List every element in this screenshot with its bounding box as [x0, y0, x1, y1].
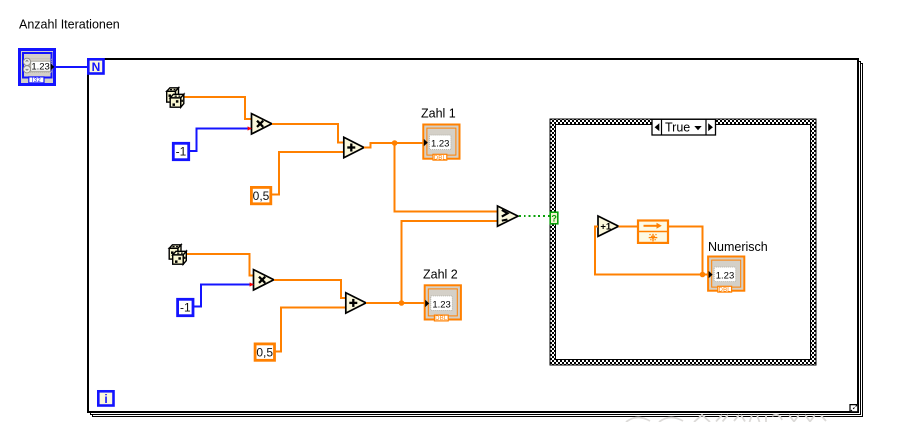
constant -1 (upper): [173, 143, 188, 159]
wire dice2 to multiply2: [187, 254, 254, 275]
multiply node lower: [254, 270, 274, 290]
svg-text:Zahl 1: Zahl 1: [421, 107, 456, 121]
junction node upper: [392, 140, 398, 146]
multiply node upper: [252, 114, 272, 134]
constant 0,5 (lower): [255, 344, 274, 360]
svg-text:I32: I32: [32, 78, 42, 84]
svg-text:1.23: 1.23: [31, 62, 50, 73]
numeric control (Anzahl Iterationen, I32): [20, 50, 55, 85]
junction node case: [700, 272, 706, 278]
svg-text:True: True: [665, 121, 690, 135]
constant 0,5 (upper): [251, 187, 270, 203]
svg-text:N: N: [92, 60, 101, 74]
wire 0,5 to add2: [276, 308, 346, 352]
wire add2 to junction2 and Zahl2: [366, 302, 424, 304]
svg-text:0,5: 0,5: [256, 345, 273, 359]
case selector label True: [652, 119, 716, 135]
coercion dot mul2: [250, 282, 254, 286]
wire junction1 down to comparison: [395, 143, 498, 211]
i terminal: [98, 391, 113, 406]
selector terminal ?: [550, 212, 558, 224]
feedback node: [638, 221, 668, 243]
dice U2 (random number, lower): [169, 245, 186, 264]
wire multiply2 to add2: [274, 280, 346, 298]
resize grip: [850, 405, 857, 412]
comparison node greater-or-equal: [498, 206, 519, 226]
svg-text:-1: -1: [176, 145, 187, 159]
coercion dot mul1: [248, 126, 252, 130]
boolean wire comparison to case selector: [519, 215, 550, 217]
constant -1 (lower): [178, 299, 193, 315]
indicator Zahl 2: [425, 285, 461, 322]
N terminal: [88, 59, 103, 74]
wire feedback loop back to +1: [595, 226, 703, 274]
wire 0,5 to add1: [272, 152, 344, 194]
indicator Numerisch: [708, 257, 744, 294]
svg-text:+1: +1: [600, 222, 612, 233]
junction node lower: [399, 300, 405, 306]
for loop N (stacked frame echoes): [88, 59, 863, 417]
wire junction2 up to comparison: [402, 221, 498, 303]
watermark fragments bottom: [626, 415, 826, 422]
wire dice1 to multiply1: [185, 97, 252, 119]
add node upper: [344, 137, 364, 157]
wire feedback out to junction and Numerisch: [668, 226, 708, 274]
svg-text:?: ?: [551, 214, 557, 224]
case structure border: [550, 119, 816, 365]
dice U1 (random number, upper): [167, 88, 184, 107]
add node lower: [346, 293, 366, 313]
svg-text:Anzahl Iterationen: Anzahl Iterationen: [19, 18, 120, 32]
wire multiply1 to add1: [272, 124, 344, 143]
svg-text:-1: -1: [180, 301, 191, 315]
wire control to N: [54, 66, 88, 68]
svg-text:Numerisch: Numerisch: [708, 240, 768, 254]
wire -1 to multiply2: [193, 285, 253, 307]
wire add1 to junction and Zahl1: [364, 143, 423, 148]
increment +1 node: [598, 216, 619, 236]
svg-text:i: i: [104, 392, 107, 406]
svg-text:Zahl 2: Zahl 2: [423, 268, 458, 282]
wire +1 to feedback node: [619, 225, 638, 227]
wire -1 to multiply1: [189, 129, 251, 152]
svg-text:0,5: 0,5: [253, 189, 270, 203]
indicator Zahl 1: [423, 125, 459, 162]
